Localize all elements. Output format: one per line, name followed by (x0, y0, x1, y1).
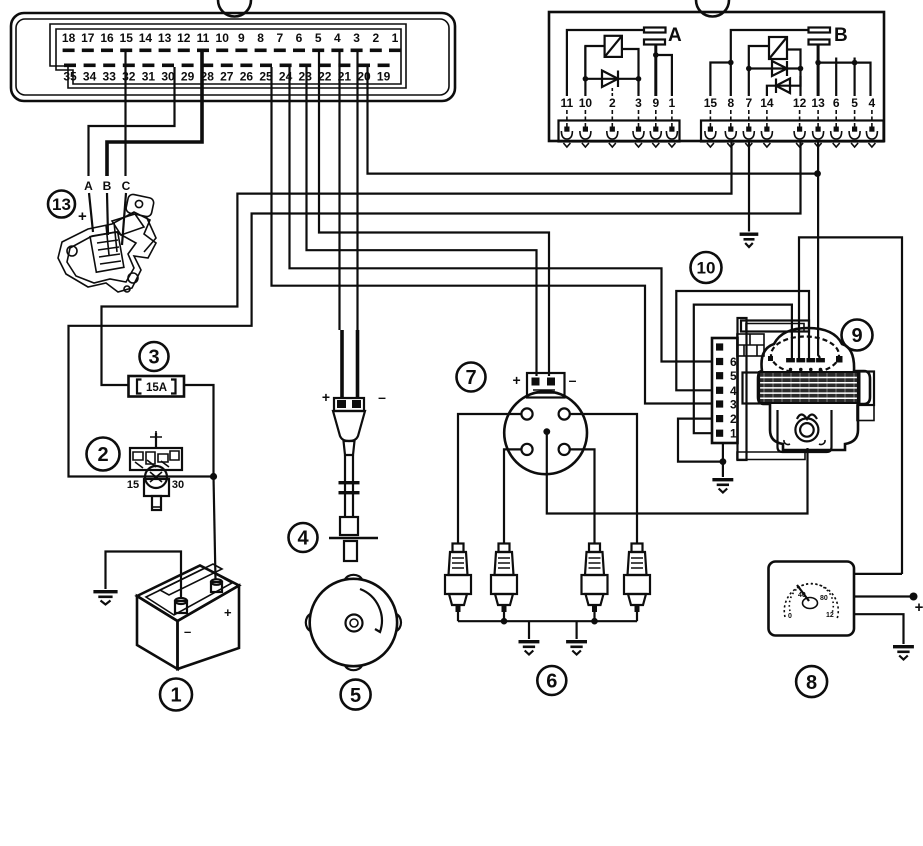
svg-text:3: 3 (730, 398, 737, 412)
label circle 6 (537, 666, 566, 695)
svg-text:20: 20 (357, 70, 371, 84)
ground below relay pin7 (740, 233, 759, 248)
svg-text:3: 3 (635, 96, 642, 110)
svg-text:26: 26 (240, 70, 254, 84)
svg-text:14: 14 (760, 96, 774, 110)
plug lead 2 (504, 449, 521, 543)
svg-text:A: A (668, 25, 682, 46)
ECU connector block outer case (11, 13, 455, 101)
relay B pin6 riser (835, 58, 837, 97)
junction plug3 bus (591, 618, 598, 625)
svg-text:5: 5 (315, 31, 322, 45)
svg-text:30: 30 (161, 70, 175, 84)
svg-text:30: 30 (172, 479, 184, 491)
module13 terminal letters (84, 179, 131, 193)
svg-text:12: 12 (793, 96, 807, 110)
distributor7 terminal circles (521, 408, 569, 455)
relay A pin2 stub (611, 86, 613, 96)
relay A wire pin9 to contact bottom (654, 44, 657, 96)
junction plug2 bus (501, 618, 508, 625)
ground plugs left (519, 640, 540, 655)
svg-text:5: 5 (350, 685, 361, 707)
relay A wire pin10 to coil (585, 46, 604, 96)
label circle 9 (842, 320, 873, 351)
svg-text:17: 17 (81, 31, 95, 45)
relay B wire pin8 to contact top (731, 30, 809, 96)
wire coil9 pad2 loop top (799, 237, 902, 574)
svg-text:9: 9 (652, 96, 659, 110)
svg-text:+: + (513, 372, 521, 388)
svg-text:6: 6 (833, 96, 840, 110)
ECU bottom pin row numbers 35..19 (63, 70, 390, 84)
label circle 3 (140, 342, 169, 371)
svg-text:8: 8 (257, 31, 264, 45)
coil9 right lug (858, 372, 874, 406)
svg-text:12: 12 (177, 31, 191, 45)
svg-text:0: 0 (788, 613, 792, 620)
label circle 13 (48, 191, 75, 218)
svg-text:10: 10 (579, 96, 593, 110)
ignition switch pictorial (130, 431, 182, 510)
svg-text:18: 18 (62, 31, 76, 45)
wire gauge8 plus supply (854, 595, 913, 597)
coil9 left lug (743, 373, 760, 404)
relay A wire coil to pin3 (622, 49, 639, 96)
junction W1/relay13 wire (814, 170, 821, 177)
relay B diode 2 line (767, 76, 801, 96)
svg-text:3: 3 (353, 31, 360, 45)
ECU bottom pin row contact dashes (64, 64, 390, 68)
relay B contact bars (809, 28, 831, 33)
svg-text:1: 1 (669, 96, 676, 110)
svg-text:80: 80 (820, 595, 828, 602)
relay B diode 2 symbol (776, 79, 790, 94)
svg-text:7: 7 (465, 367, 476, 389)
svg-text:11: 11 (197, 31, 210, 45)
relay B bus pins 13,6,5,4 (818, 63, 870, 96)
plug lead 3 (570, 449, 595, 543)
svg-text:4: 4 (334, 31, 341, 45)
label circle 5 (341, 680, 371, 710)
svg-text:1: 1 (170, 685, 181, 707)
wire fuse3 right to junction (184, 385, 214, 477)
relay B coil (769, 37, 787, 59)
junction bus/pin5 (852, 60, 858, 66)
wire gauge8 to ground (854, 614, 904, 644)
wire ECU pin3 to coil4 - lead (356, 52, 358, 330)
svg-text:19: 19 (377, 70, 391, 84)
svg-text:4: 4 (869, 96, 876, 110)
wire A: ECU pin30 to module13 terminal A (89, 67, 175, 176)
label circle 10 (691, 252, 722, 283)
plug lead 1 (458, 414, 521, 543)
svg-text:4: 4 (730, 384, 737, 398)
relay A coil (605, 36, 622, 57)
ground plugs right (566, 640, 587, 655)
module13 terminal stubs (89, 193, 126, 245)
svg-text:–: – (184, 624, 191, 639)
wire X10 pin4 to coil9 pad3 (676, 291, 809, 390)
relay box connector strip right (701, 121, 884, 142)
relay B wire pin13 to contact bottom (817, 44, 820, 96)
HT lead distributor center to coil9 tower (547, 434, 808, 514)
svg-text:5: 5 (851, 96, 858, 110)
relay B wire pin7 to coil (749, 46, 769, 96)
label circle 1 (160, 679, 192, 711)
wire ECU pin23 to distributor + terminal (307, 67, 537, 376)
svg-text:1: 1 (392, 31, 399, 45)
svg-text:13: 13 (52, 195, 71, 214)
svg-text:11: 11 (561, 96, 574, 110)
wire ECU pin25 to X10 pin3 (272, 67, 713, 404)
junction gauge plus terminal (910, 593, 918, 601)
svg-text:8: 8 (806, 672, 817, 694)
svg-text:2: 2 (97, 444, 108, 466)
X10 connector body (712, 338, 738, 443)
wire relay pin13 to coil9 pad4 (818, 142, 820, 359)
svg-text:7: 7 (745, 96, 752, 110)
svg-text:27: 27 (220, 70, 234, 84)
relay box label circle (cut off at top) (696, 0, 729, 17)
svg-text:–: – (378, 389, 386, 405)
junction pin15/pin8 (728, 60, 734, 66)
svg-text:+: + (322, 389, 330, 405)
gauge8 body (769, 562, 855, 636)
relay box pin labels (561, 96, 876, 110)
wire W1: ECU pin20 to relay pin13 junction (368, 67, 818, 174)
distributor7 center electrode (543, 428, 550, 435)
svg-text:33: 33 (103, 70, 117, 84)
wire ECU pin24 to X10 pin6 (290, 67, 713, 362)
svg-text:10: 10 (697, 259, 716, 278)
svg-text:6: 6 (546, 671, 557, 693)
svg-text:34: 34 (83, 70, 97, 84)
coil4 connector and boot (329, 398, 378, 561)
wire ECU pin5 to distributor - terminal (319, 52, 549, 376)
svg-text:+: + (915, 599, 923, 616)
svg-text:8: 8 (727, 96, 734, 110)
wire X10 strip to ground node (722, 443, 724, 477)
svg-text:2: 2 (372, 31, 379, 45)
ground below X10 (712, 478, 733, 493)
plug lead 4 (570, 414, 637, 543)
junction X10 ground node (720, 458, 727, 465)
svg-text:10: 10 (216, 31, 230, 45)
svg-text:5: 5 (730, 369, 737, 383)
coil9 mating connector strip (738, 318, 747, 460)
svg-text:16: 16 (100, 31, 114, 45)
spark plug 1 (445, 544, 471, 622)
svg-text:3: 3 (148, 347, 159, 369)
fuse value 15A (137, 380, 176, 394)
relay A diode line (584, 78, 639, 80)
svg-text:40: 40 (798, 592, 806, 599)
svg-text:15: 15 (704, 96, 718, 110)
spark plug 2 (491, 544, 517, 622)
relay A wire pin11 to contact top (567, 30, 644, 96)
svg-text:9: 9 (238, 31, 245, 45)
wire X10 pin1 to coil9 pad1 (694, 305, 792, 434)
junction fuse/battery (210, 473, 217, 480)
svg-text:–: – (569, 372, 577, 388)
junction diodeB1/pin7 (746, 66, 752, 72)
bus stub to ground left (528, 621, 530, 639)
wire ECU pin4 to coil4 + lead (338, 52, 340, 330)
svg-text:A: A (84, 179, 93, 193)
wire W3: relay pin12 to switch feed (69, 142, 801, 477)
coil9 body outline (758, 328, 870, 450)
distributor7 top connector (527, 373, 565, 398)
coil9 base plate (737, 452, 805, 460)
relay box connector strip left (559, 121, 680, 142)
bus stub to ground right (575, 621, 577, 639)
relay B wire pin15 to pin8 (710, 63, 730, 97)
svg-text:C: C (122, 179, 131, 193)
relay pin stubs from labels to strip (567, 110, 872, 127)
svg-text:12: 12 (826, 612, 834, 619)
svg-text:2: 2 (609, 96, 616, 110)
svg-text:B: B (834, 25, 848, 46)
ground below gauge (893, 645, 914, 660)
svg-text:7: 7 (276, 31, 283, 45)
plug ground bus (458, 620, 637, 622)
ground battery negative (93, 590, 117, 605)
svg-text:B: B (103, 179, 112, 193)
wire battery - terminal to ground (106, 552, 182, 599)
svg-text:22: 22 (318, 70, 332, 84)
distributor7 body circle (504, 391, 587, 474)
ECU top pin row numbers 18..1 (62, 31, 399, 45)
svg-text:14: 14 (139, 31, 153, 45)
svg-text:32: 32 (122, 70, 136, 84)
cap5 pictorial (bottom view) (306, 575, 401, 670)
junction diodeB1/pin12 (798, 66, 804, 72)
svg-text:+: + (78, 208, 87, 225)
coil9 left brick grid (737, 334, 764, 356)
coil9 finned block (759, 372, 860, 403)
svg-text:+: + (224, 605, 232, 620)
relay A contact bars (644, 28, 666, 33)
junction diode/pin10 (583, 76, 589, 82)
X10 pin contacts (716, 343, 723, 436)
fuse F 15A body (129, 376, 185, 397)
label circle 4 (289, 523, 318, 552)
junction bus/pin13 (815, 60, 821, 66)
X10 pin labels 6..1 (730, 355, 737, 441)
wire W2: relay pin8 to fuse3 left (102, 142, 732, 386)
svg-text:13: 13 (811, 96, 825, 110)
junction pin9/pin1 (653, 52, 659, 58)
wire C: ECU pin15 to module13 terminal C (124, 52, 126, 176)
label circle 7 (457, 363, 486, 392)
relay B wire coil to pin12 (787, 50, 801, 97)
coil4 - lead thick lower part (356, 330, 360, 398)
coil4 + lead thick lower part (340, 330, 344, 398)
relay B pin5 riser (853, 58, 855, 97)
svg-text:9: 9 (851, 325, 862, 347)
label circle 2 (87, 438, 120, 471)
svg-text:13: 13 (158, 31, 172, 45)
coil9 HT tower (795, 415, 818, 442)
svg-text:15A: 15A (146, 382, 167, 394)
battery pictorial (137, 564, 239, 669)
coil9 dome with terminal pads (768, 337, 843, 374)
spark plug 4 (624, 544, 650, 622)
wire junction to battery + terminal (214, 477, 216, 581)
ECU top pin row contact dashes (63, 49, 401, 53)
ECU pin field frame (50, 24, 406, 88)
junction diode/pin3 (636, 76, 642, 82)
relay A wire pin1 to pin9 node (656, 55, 672, 96)
svg-text:6: 6 (296, 31, 303, 45)
svg-text:23: 23 (299, 70, 313, 84)
svg-text:29: 29 (181, 70, 195, 84)
relay A diode symbol (602, 71, 618, 88)
coil9 top cap bar (741, 321, 809, 332)
wire B (thick): ECU pin11 to module13 terminal B (107, 52, 202, 176)
wire gauge8 feed from loop (854, 573, 902, 575)
gauge8 dial (784, 584, 838, 620)
wire X10 pin2 to ground node (678, 419, 723, 462)
spark plug 3 (582, 544, 608, 622)
relay B diode 1 line (749, 67, 801, 69)
svg-text:15: 15 (120, 31, 134, 45)
svg-text:15: 15 (127, 479, 139, 491)
svg-text:35: 35 (63, 70, 77, 84)
relay box K outer case (549, 12, 884, 141)
svg-text:4: 4 (297, 528, 309, 550)
module13 pictorial body (58, 193, 156, 292)
label circle 8 (796, 666, 827, 697)
relay B diode 1 symbol (772, 61, 787, 76)
svg-text:31: 31 (142, 70, 156, 84)
svg-text:1: 1 (730, 427, 737, 441)
ECU label circle (cut off at top) (218, 0, 251, 17)
coil9 lower bracket (778, 410, 832, 452)
wire relay pin7 to ground (748, 142, 750, 232)
relay strip contacts and hooks (561, 127, 877, 148)
svg-text:2: 2 (730, 412, 737, 426)
svg-text:6: 6 (730, 355, 737, 369)
